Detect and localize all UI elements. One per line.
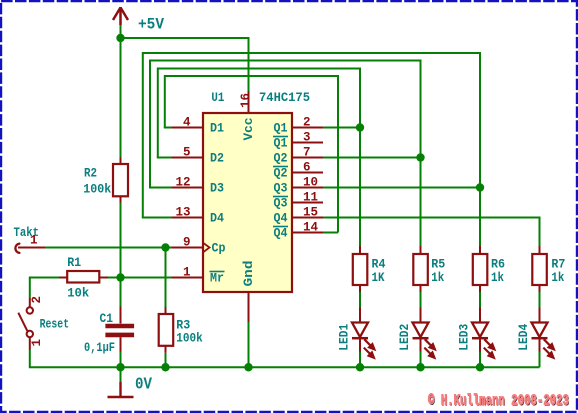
overline Mr — [210, 271, 225, 273]
wire feedback H2 Q2-D3 — [150, 61, 421, 188]
svg-text:5: 5 — [183, 146, 191, 160]
svg-text:Cp: Cp — [212, 242, 226, 256]
wire R6 column — [479, 188, 481, 247]
clock chevron Cp — [203, 243, 210, 253]
overline Q2N — [273, 166, 288, 168]
wire feedback H1 Q3-D4 — [143, 53, 480, 218]
IC pin stubs right — [292, 128, 323, 233]
svg-text:10k: 10k — [67, 287, 89, 301]
svg-text:D2: D2 — [210, 152, 224, 166]
svg-text:R3: R3 — [176, 319, 190, 333]
wire R3 top column — [165, 248, 167, 308]
svg-text:11: 11 — [303, 191, 318, 205]
IC pin stubs left — [172, 128, 204, 278]
svg-text:14: 14 — [303, 221, 319, 235]
svg-text:1: 1 — [183, 266, 191, 280]
svg-text:R4: R4 — [372, 257, 386, 271]
wire R7 to LED4 gap — [539, 292, 541, 308]
svg-text:3: 3 — [303, 131, 311, 145]
svg-text:Q3: Q3 — [274, 182, 288, 196]
wire LED4 bottom — [539, 352, 541, 368]
resistor R5 — [420, 246, 422, 254]
wire D3 — [149, 187, 172, 189]
svg-text:R5: R5 — [431, 257, 445, 271]
svg-text:LED1: LED1 — [338, 324, 352, 351]
diode LED4 — [532, 308, 550, 354]
IC U1 74HC175 body — [203, 113, 292, 292]
svg-text:LED2: LED2 — [398, 324, 412, 351]
svg-text:1k: 1k — [551, 271, 564, 285]
wire feedback H4 Q4N-D1 — [165, 76, 338, 233]
wire R1 right to Mr — [108, 277, 172, 279]
wire Q4 out to R7 — [323, 218, 540, 247]
wire Q2 out — [323, 157, 421, 159]
wire Q1 out — [323, 127, 360, 129]
svg-text:1: 1 — [30, 339, 44, 347]
resistor R3 — [165, 307, 167, 314]
svg-text:Mr: Mr — [210, 272, 224, 286]
wire R4 to LED1 gap — [359, 292, 361, 308]
svg-text:13: 13 — [175, 206, 190, 220]
overline Q1N — [273, 136, 288, 138]
svg-text:Reset: Reset — [40, 317, 70, 332]
junction Q2-R5 — [416, 153, 424, 161]
svg-text:1k: 1k — [431, 271, 444, 285]
IC pin 16 stub — [248, 91, 250, 113]
svg-text:Q1: Q1 — [274, 122, 288, 136]
svg-text:U1: U1 — [211, 90, 224, 105]
svg-text:Q3: Q3 — [274, 197, 288, 211]
svg-text:12: 12 — [175, 176, 190, 190]
diode LED1 — [352, 308, 370, 354]
svg-text:1: 1 — [30, 234, 38, 248]
svg-text:+5V: +5V — [138, 16, 165, 34]
svg-text:C1: C1 — [100, 312, 114, 326]
wire D4 — [142, 217, 172, 219]
junction +5V — [116, 34, 124, 42]
junction rail LED1 — [356, 363, 364, 371]
svg-text:15: 15 — [303, 206, 318, 220]
wire R6 to LED3 gap — [479, 292, 481, 308]
svg-text:Q2: Q2 — [274, 152, 288, 166]
svg-text:100k: 100k — [83, 182, 111, 196]
wire LED2 bottom — [420, 352, 422, 368]
wire R2 column top — [120, 38, 122, 158]
resistor R1 — [59, 277, 67, 279]
junction rail C1 — [116, 363, 124, 371]
junction rail LED2 — [416, 363, 424, 371]
svg-text:R2: R2 — [84, 166, 97, 180]
svg-text:D4: D4 — [210, 212, 224, 226]
svg-text:2: 2 — [30, 296, 44, 304]
overline Q4N — [273, 226, 288, 228]
svg-text:100k: 100k — [176, 332, 203, 346]
svg-text:© H.Kullmann 2008-2023: © H.Kullmann 2008-2023 — [428, 393, 569, 410]
svg-text:0V: 0V — [135, 375, 152, 394]
junction R1-Mr — [116, 273, 124, 281]
wire R2 to Mr node — [120, 203, 122, 307]
wire R5 to LED2 gap — [420, 292, 422, 308]
svg-text:4: 4 — [183, 116, 191, 130]
svg-text:Q2: Q2 — [274, 167, 288, 181]
wire Cp red — [166, 247, 172, 249]
svg-text:R1: R1 — [67, 256, 81, 270]
power +5V arrow — [113, 7, 128, 25]
svg-text:16: 16 — [239, 93, 253, 108]
svg-text:10: 10 — [303, 176, 318, 190]
junction rail R3 — [161, 363, 169, 371]
wire LED1 bottom — [359, 352, 361, 368]
connector Takt input — [15, 244, 19, 253]
svg-text:9: 9 — [183, 236, 191, 250]
svg-text:D3: D3 — [210, 182, 224, 196]
svg-text:1k: 1k — [491, 271, 504, 285]
wire LED3 bottom — [479, 352, 481, 368]
wire Q3 out — [323, 187, 480, 189]
diode LED2 — [413, 308, 431, 354]
wire Q4N out — [323, 232, 338, 234]
wire +5V horizontal to Vcc — [121, 37, 249, 39]
wire R4 column — [359, 128, 361, 247]
overline Q3N — [273, 196, 288, 198]
wire Gnd pin bottom — [248, 322, 250, 367]
svg-text:Vcc: Vcc — [242, 118, 256, 141]
ground 0V symbol — [108, 382, 134, 397]
svg-text:Q4: Q4 — [274, 212, 288, 226]
wire R1 left — [30, 278, 59, 299]
diode LED3 — [472, 308, 490, 354]
svg-text:6: 6 — [303, 161, 311, 175]
junction Q1-R4 — [356, 123, 364, 131]
resistor R6 — [479, 246, 481, 254]
wire R3 bottom — [165, 353, 167, 368]
svg-text:74HC175: 74HC175 — [259, 90, 310, 105]
svg-text:1K: 1K — [372, 271, 385, 285]
wire switch bottom — [30, 350, 540, 367]
capacitor C1 — [120, 307, 122, 324]
resistor R7 — [539, 246, 541, 254]
svg-text:R6: R6 — [491, 257, 505, 271]
svg-text:7: 7 — [303, 146, 311, 160]
wire feedback H3 Q1-D2 — [158, 69, 360, 158]
wire R5 column — [420, 158, 422, 247]
wire +5V vertical — [120, 25, 122, 38]
svg-text:LED3: LED3 — [458, 324, 472, 351]
junction rail Gnd — [244, 363, 252, 371]
resistor R4 — [359, 246, 361, 254]
junction rail LED3 — [476, 363, 484, 371]
svg-text:D1: D1 — [210, 122, 224, 136]
svg-text:R7: R7 — [551, 257, 565, 271]
wire Vcc drop — [248, 37, 250, 91]
switch Reset — [29, 298, 31, 307]
svg-text:Q4: Q4 — [274, 227, 288, 241]
svg-text:Gnd: Gnd — [242, 261, 256, 287]
resistor R2 — [120, 158, 122, 165]
junction Takt-R3 — [161, 243, 169, 251]
svg-text:2: 2 — [303, 116, 311, 130]
IC pin 8 Gnd stub — [248, 292, 250, 322]
svg-text:Q1: Q1 — [274, 137, 288, 151]
svg-text:0,1µF: 0,1µF — [84, 341, 115, 355]
wire D2 — [157, 157, 172, 159]
junction Q3-R6 — [476, 183, 484, 191]
svg-text:LED4: LED4 — [517, 323, 531, 350]
wire D1 — [164, 127, 172, 129]
wire Takt to Cp — [45, 247, 166, 249]
wire C1 bottom — [120, 352, 122, 368]
